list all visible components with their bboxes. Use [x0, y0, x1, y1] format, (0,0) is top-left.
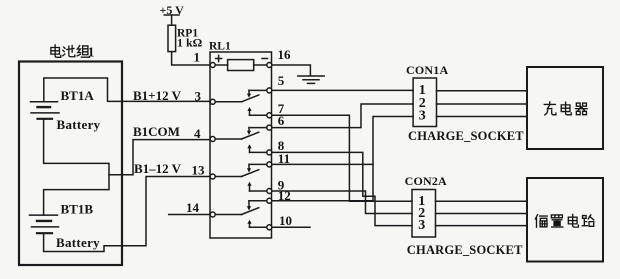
svg-text:BT1A: BT1A: [61, 88, 95, 103]
wire pin7 to CON2A pin1: [272, 115, 412, 201]
svg-text:B1–12 V: B1–12 V: [134, 161, 182, 176]
svg-text:16: 16: [278, 47, 292, 62]
SW4 NO contact pin 10: [247, 220, 271, 230]
battery BT1B: [30, 215, 59, 233]
wire pin9 to CON2A pin2: [272, 191, 412, 214]
wire B1-12V from BT1B bottom to relay pin 13: [44, 177, 211, 252]
svg-text:CON1A: CON1A: [406, 63, 448, 77]
svg-text:+5 V: +5 V: [160, 3, 185, 17]
wire pin12 to node: [272, 200, 373, 202]
充电器 : 器: [576, 103, 587, 115]
电池组1 : 组: [77, 46, 89, 58]
svg-text:RL1: RL1: [209, 41, 231, 53]
wire pin5 to CON1A pin1: [272, 89, 413, 91]
SW2 NC contact pin 6: [247, 125, 272, 135]
SW2 NO contact pin 8: [247, 144, 271, 155]
relay contact SW1 common pin 3: [210, 95, 259, 104]
relay contact SW2 common pin 4: [210, 132, 259, 141]
svg-text:1: 1: [88, 45, 95, 60]
wire pin6 to CON1A pin2: [272, 104, 413, 128]
wire pin16 to ground: [272, 65, 311, 76]
svg-text:13: 13: [192, 163, 206, 178]
label 电池组1 (battery pack 1) : 电: [51, 45, 61, 57]
svg-text:3: 3: [418, 218, 425, 233]
SW1 NO contact pin 7: [247, 107, 271, 118]
ground: [298, 76, 324, 83]
svg-text:5: 5: [278, 73, 285, 88]
SW4 NC contact pin 12: [247, 198, 272, 210]
connector CON2A CHARGE_SOCKET: [412, 190, 436, 238]
svg-text:6: 6: [278, 113, 285, 128]
SW3 NC contact pin 11: [247, 162, 272, 173]
偏置电路 : 路: [582, 215, 593, 226]
svg-text:3: 3: [195, 89, 202, 104]
svg-text:14: 14: [186, 200, 200, 215]
wires CON1A to charger box: [437, 91, 528, 117]
wires CON2A to bias box: [436, 201, 528, 225]
偏置电路 : 电: [568, 214, 578, 227]
relay coil: [210, 55, 272, 70]
wire stub at relay pin 10: [272, 226, 310, 228]
wire B1+12V from BT1A top to relay pin 3: [44, 78, 210, 102]
偏置电路 : 置: [551, 215, 562, 227]
power +5V symbol: [164, 15, 179, 25]
charger box 充电器: [527, 67, 603, 149]
svg-text:11: 11: [278, 151, 290, 166]
svg-text:BT1B: BT1B: [61, 202, 94, 217]
电池组1 : 池: [63, 46, 75, 57]
wire B1COM tap to relay pin 4: [109, 140, 210, 175]
bias circuit box 偏置电路: [527, 178, 603, 262]
SW3 NO contact pin 9: [247, 182, 271, 194]
svg-text:3: 3: [419, 109, 426, 124]
label 充电器 (charger) : 充: [544, 102, 556, 115]
wire pin8 to CON2A pin3: [272, 152, 412, 225]
relay contact SW4 common pin 14: [210, 208, 259, 217]
wire stub at relay pin 14: [169, 214, 211, 216]
svg-text:10: 10: [279, 213, 292, 228]
resistor RP1 1 kΩ: [168, 25, 176, 51]
wire pin11 to node: [272, 163, 373, 165]
svg-text:B1+12 V: B1+12 V: [133, 88, 182, 103]
svg-text:B1COM: B1COM: [133, 124, 180, 139]
svg-text:1 kΩ: 1 kΩ: [177, 35, 203, 49]
connector CON1A CHARGE_SOCKET: [413, 78, 436, 127]
svg-text:CHARGE_SOCKET: CHARGE_SOCKET: [408, 129, 524, 143]
wire RP1 to relay pin 1: [172, 52, 211, 65]
svg-text:Battery: Battery: [57, 117, 101, 132]
svg-text:1: 1: [194, 50, 201, 65]
label 偏置电路 (bias circuit) : 偏: [535, 215, 547, 228]
SW1 NC contact pin 5: [247, 88, 272, 98]
充电器 : 电: [561, 102, 571, 115]
svg-text:CHARGE_SOCKET: CHARGE_SOCKET: [407, 243, 523, 257]
wire node to CON1A pin3: [373, 117, 413, 201]
relay contact SW3 common pin 13: [210, 170, 259, 179]
wire BT1A bottom to BT1B top (series link): [44, 119, 109, 215]
svg-text:12: 12: [278, 188, 291, 203]
relay RL1 box: [210, 52, 272, 238]
battery BT1A: [31, 102, 60, 119]
battery pack box 电池组1: [19, 62, 122, 266]
svg-text:Battery: Battery: [56, 235, 100, 250]
svg-text:4: 4: [194, 126, 201, 141]
svg-text:CON2A: CON2A: [405, 174, 447, 188]
